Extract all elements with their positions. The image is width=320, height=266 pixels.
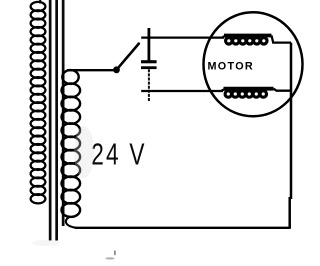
svg-text:24 V: 24 V	[91, 136, 147, 171]
primary top lead stub	[39, 0, 41, 4]
wire bottom horizontal run to motor start winding	[141, 90, 223, 92]
motor M1 run winding loops	[226, 38, 267, 44]
transformer T1 core	[49, 0, 65, 241]
wire right side vertical	[290, 43, 291, 229]
transformer T1 primary winding	[31, 2, 46, 203]
motor M1 start winding loops	[225, 91, 266, 97]
secondary bottom hook to wire	[66, 217, 76, 228]
wire from secondary top to switch junction	[67, 69, 116, 71]
motor M1 run winding top bar and leads	[222, 35, 291, 42]
capacitor C1 top lead	[147, 28, 150, 61]
svg-text:MOTOR: MOTOR	[208, 60, 255, 72]
scan artifact smudge	[105, 251, 115, 260]
node junction dot	[113, 66, 120, 73]
capacitor C1 bottom lead	[148, 69, 150, 101]
transformer T1 secondary winding (24 V)	[62, 70, 81, 217]
motor M1 label MOTOR	[208, 60, 255, 72]
wire top horizontal run to motor	[141, 36, 224, 38]
motor M1 start winding bottom bar and leads	[221, 89, 291, 91]
switch S1 open blade	[117, 44, 139, 70]
label 24 V	[91, 136, 147, 171]
wire bottom return run	[75, 227, 290, 229]
capacitor C1 plates	[141, 60, 157, 69]
scan background wash	[32, 126, 94, 246]
motor M1 body circle	[204, 12, 303, 116]
